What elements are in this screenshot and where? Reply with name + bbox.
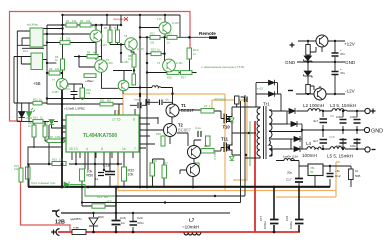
- svg-text:1000u: 1000u: [350, 115, 358, 119]
- wire opamp1 output runs: [43, 25, 90, 104]
- resistor R36: [150, 163, 155, 176]
- wire feedback r_c row: [47, 43, 96, 61]
- svg-text:T12: T12: [157, 17, 162, 21]
- resistor R7: [116, 30, 120, 43]
- capacitor C13 1000u: [340, 140, 347, 144]
- wire y121 row: [17, 120, 58, 122]
- resistor R34 driver2: [201, 149, 214, 154]
- resistor R39: [195, 163, 199, 173]
- resistor R13: [187, 48, 192, 59]
- wire T2 out: [177, 133, 188, 146]
- wire regulator cap stubs: [276, 161, 330, 188]
- wire y103 left row: [14, 103, 47, 121]
- svg-text:10k: 10k: [14, 167, 19, 171]
- zener Z2 aux: [304, 71, 312, 78]
- diode D7 bottom left black: [19, 112, 25, 118]
- wire mid column x164: [163, 37, 165, 62]
- svg-text:10k: 10k: [128, 173, 134, 177]
- wire black top rail y15: [63, 15, 180, 37]
- svg-text:15 13: 15 13: [69, 147, 78, 151]
- diode D9 green: [49, 120, 54, 125]
- svg-text:Пуск плавный пуск: Пуск плавный пуск: [31, 181, 56, 185]
- MAIN BLACK WIRES: [14, 14, 365, 232]
- wire R50 cap drops: [82, 164, 124, 187]
- svg-text:кт315: кт315: [100, 43, 107, 47]
- zener Z1 aux: [304, 56, 312, 63]
- capacitor C18: [105, 172, 115, 175]
- svg-text:1000u: 1000u: [336, 115, 344, 119]
- resistor R16: [32, 125, 36, 137]
- svg-text:8: 8: [133, 118, 135, 122]
- terminal gnd output: [364, 127, 383, 134]
- diode D5 output: [292, 136, 302, 142]
- wire drain T10: [232, 107, 256, 114]
- wire R13 lower lead: [189, 60, 191, 73]
- svg-text:R4: R4: [87, 51, 91, 55]
- wire spine upper: [62, 15, 64, 59]
- wire source T10 T11: [232, 124, 241, 155]
- svg-text:L4: L4: [306, 141, 312, 146]
- wire remote row: [140, 36, 210, 38]
- diode D4 output: [288, 121, 302, 127]
- svg-text:C17: C17: [259, 215, 263, 221]
- svg-text:+12V: +12V: [344, 42, 356, 47]
- svg-text:100u: 100u: [336, 144, 342, 148]
- capacitor C9a 4u7: [320, 119, 328, 123]
- svg-text:5k1: 5k1: [114, 26, 119, 30]
- resistor Rg snub: [235, 96, 240, 104]
- svg-text:R37: R37: [163, 161, 168, 165]
- svg-text:1s: 1s: [95, 177, 99, 181]
- wire R8 to R8b: [113, 67, 134, 74]
- svg-text:R3: R3: [60, 37, 64, 41]
- capacitor C5 driver: [146, 99, 149, 105]
- wire red center tap vertical: [254, 121, 256, 232]
- transistor T8: [125, 38, 137, 50]
- wire red left lower run: [10, 121, 71, 231]
- svg-text:R50: R50: [87, 174, 94, 178]
- transistor T5: [90, 30, 102, 42]
- inductor L7: [184, 233, 201, 236]
- wire T1 T2 chain: [170, 94, 173, 144]
- resistor Ra2 aux: [306, 85, 310, 94]
- resistor R32: [122, 167, 127, 181]
- transistor T7: [56, 78, 67, 89]
- wire cap drops bottom left: [94, 213, 134, 232]
- svg-text:R9: R9: [49, 67, 53, 71]
- ORANGE-NETS: [118, 94, 340, 197]
- resistor R26: [167, 71, 179, 75]
- wire T7 right lead: [68, 84, 83, 88]
- fuse F1: [72, 226, 86, 235]
- svg-text:0,1u: 0,1u: [195, 126, 201, 130]
- wire y141 run: [45, 140, 66, 142]
- wire green net transformer: [249, 121, 251, 166]
- svg-text:R21: R21: [150, 32, 155, 36]
- wire R9 leads: [47, 72, 63, 74]
- wire y98 run: [47, 98, 123, 100]
- svg-text:10k: 10k: [72, 19, 77, 23]
- wire aux caps column: [334, 41, 336, 94]
- svg-text:кт315: кт315: [172, 21, 179, 25]
- capacitor C12 reg: [327, 174, 334, 177]
- resistor Ra1 aux: [306, 45, 310, 56]
- wire opamp1 inputs: [17, 31, 30, 45]
- INDUCTORS: [184, 109, 347, 235]
- svg-text:6: 6: [101, 147, 103, 151]
- wire T8 emitter to R8: [131, 51, 134, 55]
- wire C19 column: [115, 187, 117, 232]
- wire diode columns: [22, 103, 29, 121]
- RED-NETS: [10, 12, 191, 232]
- svg-text:100k: 100k: [55, 135, 61, 139]
- wire opamp1 lower hooks: [17, 45, 47, 48]
- svg-text:GND: GND: [371, 129, 383, 135]
- capacitor C12a 1000u: [354, 120, 361, 124]
- resistor R50: [80, 169, 85, 181]
- wire red bottom power bus: [58, 231, 300, 233]
- wire aux emitter drop: [320, 48, 322, 88]
- wire driver verticals: [157, 117, 159, 124]
- wire T13 collector: [123, 71, 125, 81]
- diode D6 output: [292, 146, 301, 152]
- wire R31 row: [82, 187, 116, 206]
- svg-text:-12V: -12V: [345, 89, 356, 94]
- svg-text:10k: 10k: [59, 158, 64, 162]
- resistor R27: [181, 71, 193, 75]
- wire x36 x45 resistor drops: [34, 121, 45, 148]
- resistor R33 driver1: [201, 109, 214, 114]
- wire opamp2 pins: [14, 57, 47, 65]
- capacitor C2a: [138, 102, 141, 108]
- svg-text:12В: 12В: [55, 220, 65, 226]
- resistor R2: [80, 23, 91, 27]
- inductor L3: [332, 109, 347, 111]
- zener ZG1 green: [230, 118, 235, 122]
- svg-text:1мкГн 0,5А: 1мкГн 0,5А: [283, 155, 298, 159]
- svg-text:1k: 1k: [355, 169, 359, 173]
- zener ZG2 green: [230, 157, 235, 161]
- svg-text:З 15В: З 15В: [213, 152, 217, 160]
- diode D11 green small: [64, 182, 69, 188]
- svg-text:C18: C18: [103, 164, 110, 168]
- svg-text:кт361: кт361: [52, 90, 59, 94]
- svg-text:10k: 10k: [150, 41, 155, 45]
- wire output gnd rail: [287, 111, 364, 149]
- svg-text:R7: R7: [109, 26, 113, 30]
- resistor R4: [87, 55, 98, 59]
- wire y196 run: [116, 195, 245, 197]
- svg-text:T10: T10: [223, 125, 231, 130]
- svg-text:+5v: +5v: [335, 169, 340, 173]
- inductor L4: [307, 147, 321, 149]
- wire top diode loop: [256, 83, 286, 111]
- wire T6 collector up: [101, 25, 103, 60]
- transformer Tr1: [232, 106, 302, 159]
- tiny green value labels texture: [14, 17, 186, 199]
- wire orange stub to IC pin top: [122, 94, 124, 115]
- transistor T13: [118, 80, 129, 91]
- svg-text:GND: GND: [285, 60, 296, 65]
- resistor R19: [52, 162, 66, 166]
- svg-text:10k: 10k: [86, 19, 91, 23]
- wire transformer secondary taps: [272, 111, 292, 149]
- wire T3 T4: [153, 140, 202, 187]
- svg-text:кт361: кт361: [176, 61, 183, 65]
- wire y164 in box: [27, 163, 122, 165]
- wire x49 vertical into box: [48, 125, 50, 164]
- svg-text:BC817: BC817: [181, 108, 194, 113]
- wire orange top run: [123, 93, 225, 95]
- wire gate run T11: [221, 148, 224, 152]
- capacitor C2b: [160, 100, 163, 106]
- wire aux verticals: [307, 41, 309, 94]
- resistor R11: [100, 102, 113, 106]
- MOSFET T11: [224, 142, 233, 153]
- wire y202 run: [82, 202, 241, 204]
- diode D2 top: [269, 91, 275, 97]
- resistor R37: [162, 165, 167, 178]
- node dots y164: [48, 93, 216, 204]
- wire T3 out: [201, 150, 221, 152]
- svg-text:с заменяемым выходом (1,5 В): с заменяемым выходом (1,5 В): [201, 65, 244, 69]
- svg-text:R31: R31: [97, 195, 102, 199]
- capacitor Cg snub: [245, 97, 248, 103]
- svg-text:L7: L7: [189, 218, 195, 223]
- svg-text:+5v: +5v: [165, 98, 170, 102]
- wire green net below IC: [70, 184, 116, 196]
- wire IC bottom pin drops: [72, 152, 133, 170]
- inductor L2: [308, 109, 323, 111]
- wire output cap columns: [323, 111, 357, 149]
- transistor T9: [163, 59, 176, 72]
- wire ground spine: [61, 90, 63, 187]
- LED D8 green: [26, 108, 35, 118]
- terminal plus input: [51, 229, 60, 236]
- svg-text:з R31: з R31: [105, 200, 113, 204]
- driver transistors black: [164, 35, 329, 177]
- wire IC left pins: [61, 120, 66, 138]
- svg-text:R23: R23: [151, 48, 156, 52]
- wire orange right vertical of driver box: [224, 94, 226, 191]
- svg-text:R2: R2: [80, 19, 84, 23]
- green transistors: [56, 22, 175, 91]
- transistor T6: [95, 60, 108, 73]
- transistor Q1 aux: [316, 35, 328, 47]
- svg-text:4u7: 4u7: [313, 119, 318, 123]
- svg-text:10n: 10n: [66, 87, 71, 91]
- wire T13 emitter: [122, 91, 124, 94]
- svg-text:22k: 22k: [66, 37, 71, 41]
- svg-text:R1: R1: [66, 19, 70, 23]
- wire orange inner box around T10 T11: [212, 100, 247, 180]
- op-amp U1: [30, 28, 43, 47]
- capacitor C20: [130, 222, 138, 226]
- resistor R8b: [132, 74, 136, 85]
- capacitor C4 driver: [198, 131, 201, 137]
- svg-text:05: 05: [310, 170, 314, 174]
- wire red top border run: [10, 12, 191, 122]
- svg-text:L3 5, 15mkH: L3 5, 15mkH: [330, 103, 356, 108]
- resistor R10b: [84, 74, 96, 78]
- svg-text:C19: C19: [120, 216, 126, 220]
- wire minus lead: [61, 212, 93, 214]
- MOSFET T10: [224, 114, 233, 125]
- svg-text:1e: 1e: [122, 147, 126, 151]
- svg-text:10k: 10k: [55, 67, 60, 71]
- GREEN COMPONENTS: [19, 23, 214, 208]
- resistor R9: [49, 71, 60, 75]
- wire x107 drop: [106, 15, 108, 25]
- svg-text:C20: C20: [137, 216, 143, 220]
- wire output plus rail: [297, 110, 364, 112]
- wire cap C10n leads: [73, 84, 75, 99]
- svg-text:4k7: 4k7: [93, 51, 98, 55]
- svg-text:1m: 1m: [121, 221, 126, 225]
- diode D3 output: [286, 108, 297, 114]
- diode D10 bottom: [89, 218, 98, 226]
- wire drain T11: [232, 133, 256, 142]
- svg-text:IRF3205: IRF3205: [214, 98, 226, 102]
- resistor R21: [150, 36, 160, 40]
- svg-text:4k7: 4k7: [107, 99, 112, 103]
- wire R5 to T7: [62, 70, 64, 79]
- terminal minus output: [365, 147, 376, 152]
- resistor R3: [60, 41, 70, 45]
- wire aux mid gnd: [297, 61, 345, 63]
- svg-text:R12: R12: [33, 97, 38, 101]
- wire left column vertical: [14, 31, 21, 103]
- capacitor C6 aux: [332, 53, 339, 56]
- svg-text:15к: 15к: [204, 144, 209, 148]
- resistor R15: [19, 168, 23, 182]
- resistor R6: [108, 30, 112, 43]
- svg-text:T11: T11: [221, 137, 229, 142]
- wire y104 run: [47, 104, 123, 115]
- svg-text:Remote: Remote: [199, 31, 216, 36]
- inductor L5: [330, 147, 345, 149]
- svg-text:C22: C22: [285, 215, 289, 221]
- svg-text:нд2987з: нд2987з: [70, 217, 82, 221]
- svg-text:47u: 47u: [340, 71, 345, 75]
- svg-text:+2,5мВ 1,5РВС: +2,5мВ 1,5РВС: [64, 107, 86, 111]
- resistor R18: [47, 139, 64, 143]
- svg-text:TL494/KA7500: TL494/KA7500: [83, 133, 117, 139]
- svg-text:GND: GND: [345, 60, 356, 65]
- svg-text:50В: 50В: [355, 174, 360, 178]
- svg-text:C15: C15: [329, 135, 335, 139]
- svg-text:4: 4: [86, 147, 88, 151]
- svg-text:R35: R35: [156, 132, 161, 136]
- svg-text:н ав: н ав: [73, 226, 79, 230]
- wire regulator top: [323, 166, 351, 187]
- resistor R8: [132, 54, 136, 67]
- wire thick vertical drops caps right: [274, 187, 299, 232]
- wire T12 emitter: [164, 34, 166, 37]
- wire T13 base chain: [102, 73, 119, 89]
- transistor T4: [187, 164, 200, 177]
- svg-text:R22: R22: [167, 32, 172, 36]
- svg-text:R36: R36: [152, 159, 157, 163]
- svg-text:+5В: +5В: [33, 81, 41, 86]
- wire R v in box: [28, 164, 30, 187]
- svg-text:L5 5, 15mkH: L5 5, 15mkH: [327, 154, 353, 159]
- svg-text:C12: C12: [335, 174, 341, 178]
- svg-text:Tr1: Tr1: [263, 102, 270, 107]
- svg-text:кр140вц: кр140вц: [27, 23, 39, 27]
- svg-text:20p: 20p: [287, 171, 292, 175]
- svg-text:кт15: кт15: [257, 87, 263, 91]
- svg-text:1000u: 1000u: [263, 221, 267, 229]
- wire gate run T10: [221, 111, 224, 119]
- wire res3 row: [147, 53, 165, 55]
- svg-text:D93: D93: [98, 215, 104, 219]
- svg-text:R18: R18: [48, 135, 53, 139]
- svg-text:5k1: 5k1: [104, 195, 109, 199]
- svg-text:~10mkH: ~10mkH: [182, 225, 199, 230]
- capacitor C17b: [295, 220, 304, 224]
- svg-text:7: 7: [134, 147, 136, 151]
- wire R4 junction: [74, 57, 102, 68]
- wire top rail y25: [47, 24, 121, 26]
- svg-text:15: 15: [204, 104, 208, 108]
- wire y213 run: [63, 212, 230, 214]
- svg-text:100mH: 100mH: [302, 153, 317, 158]
- wire terminal leads: [364, 111, 365, 149]
- remote dash: [209, 36, 217, 39]
- wire x121 to top bus: [120, 15, 122, 25]
- svg-text:100u: 100u: [350, 144, 356, 148]
- svg-text:C9: C9: [330, 114, 334, 118]
- svg-text:R14: R14: [33, 116, 38, 120]
- wire aux bottom rail: [296, 93, 345, 95]
- transistor T1: [166, 104, 179, 117]
- svg-text:С17: С17: [286, 178, 292, 182]
- resistor R23: [151, 52, 161, 56]
- svg-text:R6: R6: [104, 26, 108, 30]
- svg-text:R26: R26: [167, 76, 172, 80]
- svg-text:R27: R27: [181, 76, 186, 80]
- wire aux transistor bases: [308, 47, 316, 90]
- resistor R35: [161, 136, 165, 146]
- capacitor C11 1000u: [340, 120, 347, 124]
- resistor R1k reg: [349, 169, 354, 180]
- terminal minus aux: [288, 90, 293, 92]
- resistor R10: [80, 88, 85, 98]
- capacitor C17a: [270, 220, 279, 224]
- svg-text:кт361: кт361: [122, 60, 129, 64]
- resistor R12: [33, 101, 42, 105]
- wire caps y102 leads: [130, 102, 173, 105]
- wire x147 vertical: [146, 37, 148, 187]
- sub-circuit box outline: [28, 147, 61, 187]
- svg-text:кт315: кт315: [106, 61, 113, 65]
- resistor R22: [167, 36, 177, 40]
- wire T1 out: [179, 110, 221, 111]
- wire orange left vertical of driver box: [118, 110, 225, 191]
- svg-text:DA1: DA1: [23, 49, 29, 53]
- capacitor C7 aux: [332, 72, 339, 75]
- svg-text:47u: 47u: [340, 52, 345, 56]
- wire opamp1 top pin hook: [43, 28, 63, 30]
- capacitor C14 1000u: [354, 140, 361, 144]
- svg-text:1000u: 1000u: [289, 221, 293, 229]
- wire T5 collector: [95, 25, 97, 30]
- svg-text:+15мкс: +15мкс: [85, 79, 94, 83]
- wire IC top pin stubs: [115, 109, 135, 115]
- terminal minus input: [52, 210, 60, 217]
- wire thick ground bus: [28, 186, 330, 188]
